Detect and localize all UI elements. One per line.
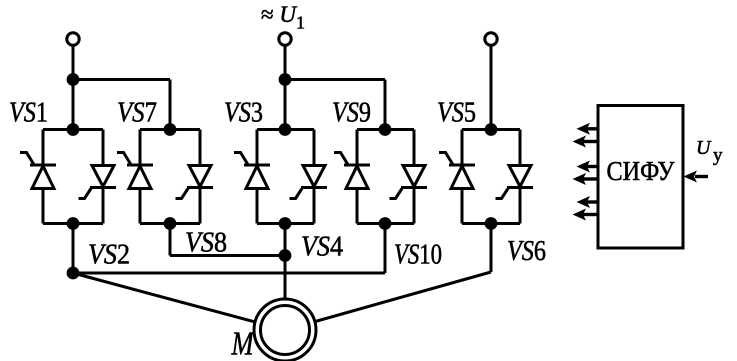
gate pulse output arrows cluster 3 (573, 196, 599, 221)
thyristor VS5 (left branch, conducts up) (439, 153, 475, 189)
wire: terminal C down to group VS5 top node (490, 45, 493, 130)
control unit U1 SIFU box (598, 106, 683, 249)
svg-text:VS9: VS9 (332, 98, 371, 129)
svg-text:VS8: VS8 (185, 228, 227, 259)
wire: loop frame of pair VS1/VS2 (43, 130, 103, 224)
wire: diagonal from VS5 drop to motor (285, 272, 491, 330)
node: top of pair VS9/VS10 (379, 123, 392, 136)
node A junction (67, 73, 80, 86)
node: top of pair VS3/VS4 (279, 123, 292, 136)
wire: loop frame of pair VS5/VS6 (462, 130, 520, 224)
thyristor VS1 (left branch, conducts up) (20, 153, 56, 189)
wire: VS5 group bottom drop (490, 224, 493, 273)
wire: VS7 group bottom drop (169, 224, 172, 256)
gate pulse output arrows cluster 2 (573, 161, 599, 186)
wire: branch from node B across to group VS9 (285, 78, 385, 81)
svg-text:Uу: Uу (696, 137, 723, 166)
thyristor VS6 (right branch, conducts down) (496, 166, 534, 199)
wire: VS3 group bottom down to motor (284, 224, 287, 331)
node: left bottom junction (67, 267, 80, 280)
node: top of pair VS1/VS2 (67, 123, 80, 136)
thyristor VS9 (left branch, conducts up) (334, 153, 370, 189)
terminal phase B (279, 33, 291, 45)
wire: VS1 group bottom down to left junction (72, 224, 75, 274)
wire: diagonal from left junction to motor (73, 273, 285, 330)
svg-text:VS10: VS10 (394, 240, 442, 271)
terminal phase C (485, 33, 497, 45)
node: junction below VS3 group (279, 249, 292, 262)
control input arrow Uy (684, 171, 709, 183)
motor M (outer circle) (254, 299, 316, 361)
wire: branch from node A across to group VS7 (73, 78, 170, 81)
wire: branch down to group VS9 top node (384, 80, 387, 130)
wire: terminal B down to group VS3 top node (284, 45, 287, 130)
wire: loop frame of pair VS3/VS4 (257, 130, 314, 224)
node: bottom of pair VS5/VS6 (485, 217, 498, 230)
motor M (inner circle) (261, 306, 310, 355)
svg-text:VS4: VS4 (301, 232, 343, 263)
node: bottom of pair VS7/VS8 (164, 217, 177, 230)
thyristor VS4 (right branch, conducts down) (290, 166, 328, 199)
thyristor VS7 (left branch, conducts up) (117, 153, 153, 189)
node: bottom of pair VS9/VS10 (379, 217, 392, 230)
svg-text:≈ U1: ≈ U1 (261, 2, 305, 33)
wire: branch down to group VS7 top node (169, 80, 172, 130)
svg-text:VS5: VS5 (437, 98, 476, 129)
svg-text:VS7: VS7 (117, 98, 157, 129)
svg-text:VS2: VS2 (88, 240, 130, 271)
thyristor VS2 (right branch, conducts down) (79, 166, 117, 199)
wire: VS7 group across to VS3 group drop (170, 254, 285, 257)
node: top of pair VS5/VS6 (485, 123, 498, 136)
wire: long horizontal from left junction to VS9 group drop (73, 272, 385, 275)
label M motor (231, 324, 255, 361)
wire: loop frame of pair VS9/VS10 (357, 130, 414, 224)
wire: VS9 group bottom drop (384, 224, 387, 274)
svg-text:VS3: VS3 (224, 98, 263, 129)
wire: terminal A down to group VS1 top node (72, 45, 75, 130)
thyristor VS10 (right branch, conducts down) (390, 166, 428, 199)
svg-text:M: M (231, 324, 255, 361)
gate pulse output arrows cluster 1 (573, 123, 599, 148)
svg-text:VS1: VS1 (9, 98, 48, 129)
wire: loop frame of pair VS7/VS8 (140, 130, 200, 224)
node: bottom of pair VS1/VS2 (67, 217, 80, 230)
node: top of pair VS7/VS8 (164, 123, 177, 136)
thyristor VS8 (right branch, conducts down) (176, 166, 214, 199)
terminal phase A (67, 33, 79, 45)
svg-text:VS6: VS6 (507, 236, 546, 267)
thyristor VS3 (left branch, conducts up) (234, 153, 270, 189)
node: bottom of pair VS3/VS4 (279, 217, 292, 230)
node B junction (279, 73, 292, 86)
svg-text:СИФУ: СИФУ (607, 156, 676, 186)
